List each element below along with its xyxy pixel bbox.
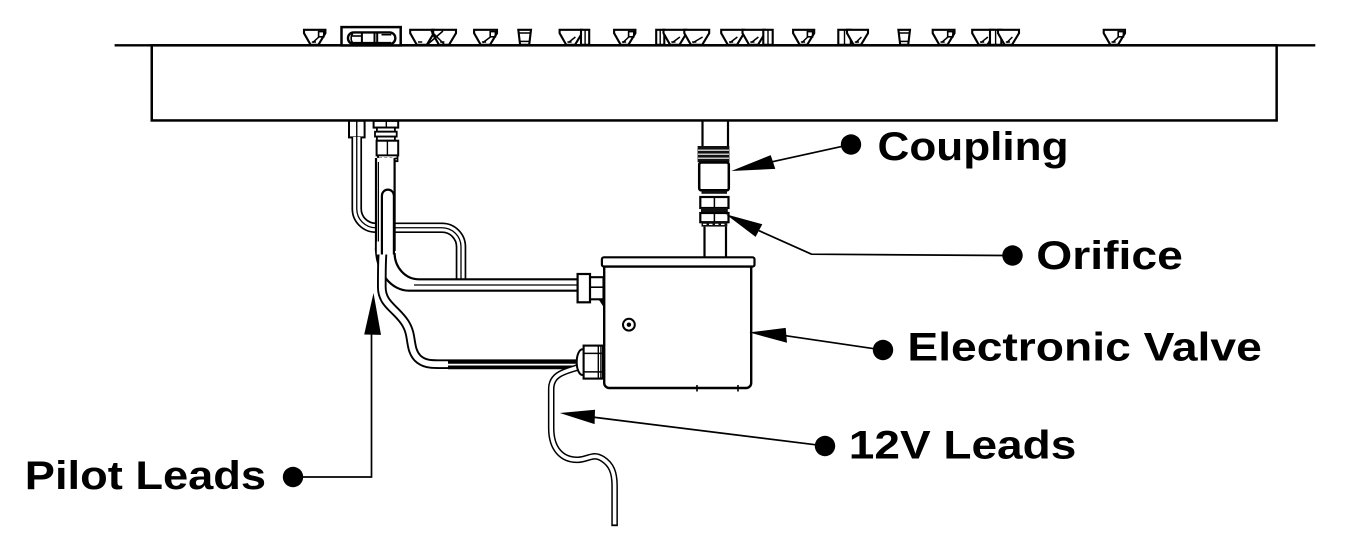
pilot gas tube (down, right, down to main line) (357, 137, 461, 280)
valve cable gland (577, 346, 603, 379)
svg-text:Coupling: Coupling (878, 125, 1069, 169)
nozzle pair right part (432, 30, 456, 45)
bullet for 12V Leads (815, 436, 835, 456)
arrowhead Orifice (726, 214, 763, 237)
pilot leads wire (S-bend to valve gland) (377, 242, 588, 365)
svg-text:Electronic Valve: Electronic Valve (907, 325, 1261, 369)
bullet for Orifice (1002, 245, 1022, 265)
burner pan body (152, 45, 1277, 120)
pilot supply sheath tube (378, 158, 385, 253)
cluster trap 2 (684, 30, 709, 45)
leader line Coupling (772, 146, 843, 162)
orifice dashed band (702, 222, 728, 226)
electronic valve body (604, 267, 751, 388)
burner nozzle 1 (304, 30, 325, 45)
nozzle pair left part (410, 30, 434, 45)
cluster3 trap 2 (998, 30, 1019, 45)
valve inlet fitting nut (578, 274, 604, 307)
burner nozzle 4 (614, 30, 635, 45)
small burner cylinder 1 (518, 30, 531, 45)
bullet for Pilot Leads (283, 467, 303, 487)
coupling lower thread band (702, 191, 728, 194)
burner nozzle 2 (474, 30, 497, 45)
burner nozzle cluster 3 (972, 30, 1019, 45)
valve screw (623, 319, 635, 331)
burner nozzle 3 with side tab (560, 30, 590, 45)
pilot burner enclosure box (342, 27, 401, 45)
electronic valve top cap (602, 257, 755, 266)
bullet for Electronic Valve (873, 340, 893, 360)
nozzle 3 tab (581, 30, 589, 45)
cluster2 rect (763, 30, 772, 45)
gas supply pipe upper section (703, 121, 729, 148)
burner nozzle pair with cross brace (410, 30, 456, 45)
arrowhead 12V Leads (560, 410, 595, 424)
leader line Electronic Valve (783, 335, 874, 348)
orifice lower block (700, 213, 728, 222)
cluster2 trap 1 (721, 30, 744, 45)
burner nozzle cluster left of gas pipe (656, 30, 709, 45)
leader line Pilot Leads (302, 331, 372, 477)
orifice dark band (701, 208, 728, 213)
12V cable from gland, curving down (551, 368, 618, 526)
valve bottom tick marks (697, 385, 738, 392)
small burner cylinder 2 (898, 30, 910, 45)
burner nozzle 6 with left tab (838, 30, 868, 45)
nozzle 6 trapezoid (847, 30, 868, 45)
coupling threads (698, 146, 730, 162)
burner pan top lip line (115, 44, 1316, 46)
arrowhead Electronic Valve (749, 328, 787, 343)
cluster2 trap 2 (743, 30, 766, 45)
gas pipe lower section into valve (705, 227, 727, 258)
orifice upper block (700, 197, 728, 208)
cluster3 trap 1 (972, 30, 994, 45)
arrowhead Coupling (731, 155, 775, 171)
leader line Orifice (759, 231, 1004, 256)
burner nozzle 7 (933, 30, 955, 45)
cluster trap 1 (664, 30, 687, 45)
leader line 12V Leads (592, 417, 816, 445)
coupling body (699, 163, 729, 191)
svg-text:12V Leads: 12V Leads (849, 424, 1077, 468)
cluster3 rect (990, 30, 1001, 45)
cluster rect (656, 30, 664, 45)
bullet for Coupling (841, 134, 861, 154)
pilot leads conduit jacket with rounded top (382, 190, 394, 255)
svg-text:Orifice: Orifice (1036, 234, 1183, 278)
burner nozzle 5 (793, 30, 814, 45)
pilot gas tube stub at pan (349, 121, 365, 138)
burner nozzle cluster right of gas pipe (721, 30, 773, 45)
arrowhead Pilot Leads (364, 293, 381, 335)
nozzle 3 trapezoid (560, 30, 582, 45)
main gas line to valve inlet (376, 248, 585, 291)
burner nozzle 8 (1104, 30, 1125, 45)
svg-text:Pilot Leads: Pilot Leads (25, 454, 266, 498)
nozzle 6 tab (838, 30, 851, 45)
pilot fitting stack at pan bottom (374, 121, 399, 161)
